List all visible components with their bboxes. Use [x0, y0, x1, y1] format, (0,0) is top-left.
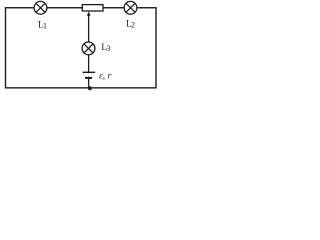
battery cell: gap cover: [84, 73, 93, 77]
wire middle branch: [88, 14, 90, 88]
lamp L1: [34, 1, 47, 14]
wire outer loop: [6, 8, 157, 88]
lamp L3: [82, 42, 95, 55]
svg-text:L1: L1: [38, 21, 47, 31]
rheostat R: [82, 5, 103, 11]
battery short plate: [85, 77, 92, 79]
svg-text:ε, r: ε, r: [99, 72, 111, 82]
svg-text:L3: L3: [101, 43, 110, 53]
lamp L2: [124, 1, 137, 14]
battery long plate: [83, 71, 96, 73]
svg-text:L2: L2: [126, 20, 135, 30]
junction dot: [88, 86, 92, 90]
rheostat wiper arrow: [87, 12, 91, 16]
